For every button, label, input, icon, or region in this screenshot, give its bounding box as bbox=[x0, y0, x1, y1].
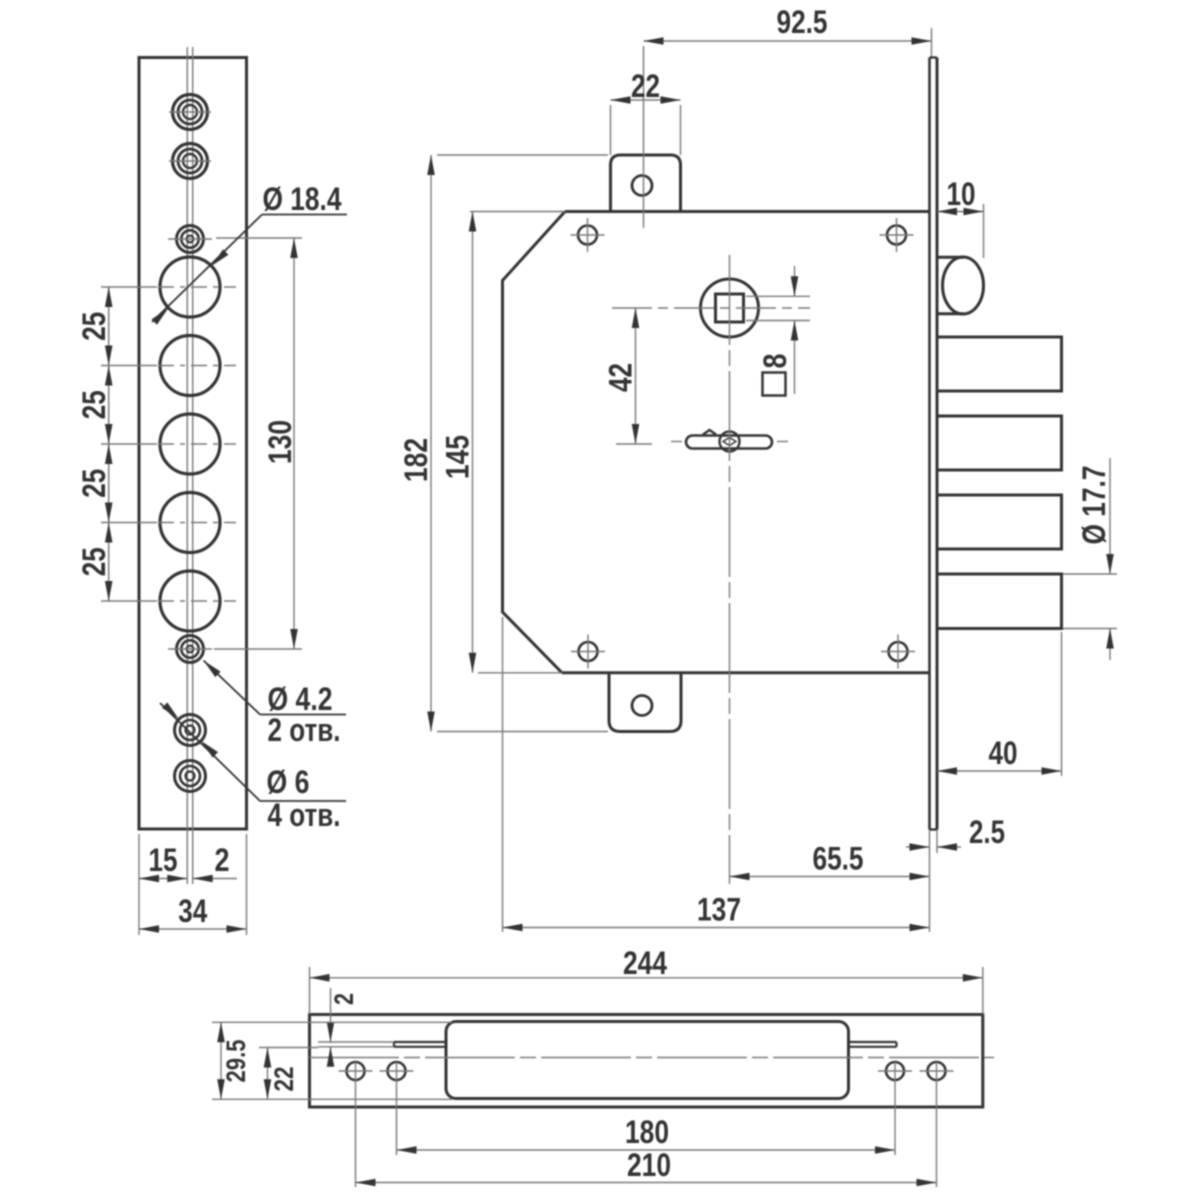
svg-text:145: 145 bbox=[440, 435, 476, 479]
svg-text:Ø 6: Ø 6 bbox=[267, 764, 310, 800]
svg-text:180: 180 bbox=[625, 1114, 669, 1150]
svg-text:25: 25 bbox=[76, 547, 112, 576]
svg-text:34: 34 bbox=[178, 893, 207, 929]
svg-text:130: 130 bbox=[262, 420, 298, 464]
svg-text:Ø 18.4: Ø 18.4 bbox=[263, 181, 342, 217]
svg-text:22: 22 bbox=[631, 68, 660, 104]
svg-text:2.5: 2.5 bbox=[969, 814, 1005, 850]
svg-text:15: 15 bbox=[149, 842, 178, 878]
svg-text:25: 25 bbox=[76, 390, 112, 419]
svg-text:40: 40 bbox=[989, 735, 1018, 771]
svg-text:2 отв.: 2 отв. bbox=[268, 712, 341, 748]
svg-text:210: 210 bbox=[627, 1147, 671, 1183]
svg-text:22: 22 bbox=[269, 1067, 299, 1092]
svg-text:25: 25 bbox=[76, 312, 112, 341]
svg-text:8: 8 bbox=[757, 354, 793, 369]
svg-text:10: 10 bbox=[947, 176, 976, 212]
svg-text:25: 25 bbox=[76, 469, 112, 498]
svg-text:65.5: 65.5 bbox=[813, 841, 864, 877]
svg-text:29.5: 29.5 bbox=[221, 1040, 251, 1083]
svg-text:4 отв.: 4 отв. bbox=[268, 797, 341, 833]
svg-text:182: 182 bbox=[398, 438, 434, 482]
svg-text:92.5: 92.5 bbox=[777, 4, 828, 40]
svg-text:Ø 17.7: Ø 17.7 bbox=[1076, 466, 1112, 545]
svg-text:2: 2 bbox=[329, 993, 359, 1005]
svg-text:244: 244 bbox=[623, 945, 667, 981]
svg-text:137: 137 bbox=[697, 892, 741, 928]
svg-text:2: 2 bbox=[215, 842, 230, 878]
svg-text:42: 42 bbox=[603, 363, 639, 392]
